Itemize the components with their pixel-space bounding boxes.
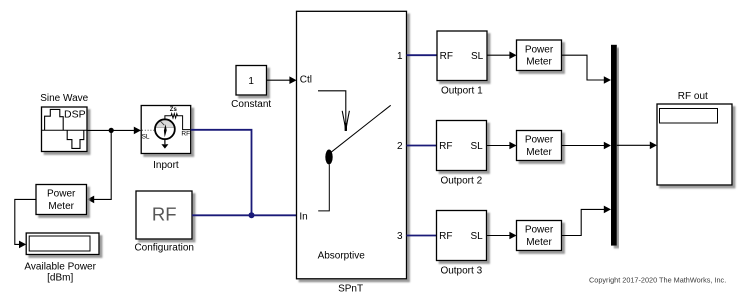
svg-text:1: 1 <box>248 76 254 87</box>
svg-text:Power: Power <box>525 135 554 146</box>
svg-text:Power: Power <box>47 189 76 200</box>
wire mux bar to RF out display <box>617 142 657 150</box>
svg-text:Zs: Zs <box>170 107 178 113</box>
svg-text:Absorptive: Absorptive <box>318 251 366 262</box>
svg-text:Sine Wave: Sine Wave <box>40 93 88 104</box>
block Power Meter 1 <box>517 40 562 71</box>
svg-text:RF out: RF out <box>678 91 708 102</box>
svg-text:Outport 3: Outport 3 <box>440 265 482 276</box>
svg-text:Outport 2: Outport 2 <box>440 175 482 186</box>
block SPnT switch body <box>297 11 407 294</box>
block display RF out <box>657 91 732 185</box>
wire Constant to SPnT Ctl <box>267 76 297 84</box>
svg-text:SL: SL <box>471 51 484 62</box>
SPnT control arrow <box>318 91 349 131</box>
svg-text:SL: SL <box>470 141 483 152</box>
svg-text:RF: RF <box>439 231 452 242</box>
blue wire SPnT port 1 to Outport 1 <box>407 54 438 56</box>
svg-text:SPnT: SPnT <box>338 283 363 294</box>
blue wire SPnT port 2 to Outport 2 <box>407 145 437 147</box>
svg-text:Outport 1: Outport 1 <box>441 86 483 97</box>
SPnT In wire elbow <box>318 165 329 211</box>
wire Outport 3 to Power Meter 3 <box>487 232 517 240</box>
svg-text:Meter: Meter <box>48 201 74 212</box>
block Sine Wave <box>40 93 88 152</box>
wire Outport 2 to Power Meter 2 <box>487 142 517 150</box>
svg-text:1: 1 <box>397 51 403 62</box>
svg-text:Ctl: Ctl <box>300 75 312 86</box>
wire junction to left Power Meter <box>87 130 111 203</box>
block Outport 1 <box>437 31 487 97</box>
wire Outport 1 to Power Meter 1 <box>487 51 517 59</box>
svg-text:Configuration: Configuration <box>134 242 193 253</box>
svg-text:Meter: Meter <box>526 237 552 248</box>
svg-text:Meter: Meter <box>526 147 552 158</box>
svg-text:3: 3 <box>397 231 403 242</box>
svg-text:Power: Power <box>525 44 554 55</box>
wire Sine Wave to Inport <box>87 127 141 135</box>
svg-text:In: In <box>299 212 307 223</box>
block Power Meter 2 <box>517 131 562 161</box>
wire Power Meter 1 to mux bar <box>562 55 612 84</box>
block Power Meter 3 <box>517 221 562 251</box>
junction node on blue wire <box>249 212 255 218</box>
svg-text:Meter: Meter <box>526 57 552 68</box>
svg-text:Constant: Constant <box>231 99 271 110</box>
blue wire Configuration to SPnT In <box>192 214 297 216</box>
block display Available Power [dBm] <box>24 233 99 283</box>
block Outport 2 <box>437 121 487 187</box>
SPnT throw line <box>331 105 391 152</box>
mux bar <box>611 45 617 246</box>
svg-text:2: 2 <box>397 141 403 152</box>
wire Power Meter 2 to mux bar <box>562 142 612 150</box>
blue wire SPnT port 3 to Outport 3 <box>407 235 437 237</box>
svg-text:SL: SL <box>470 231 483 242</box>
block Outport 3 <box>437 211 487 277</box>
svg-text:Copyright 2017-2020 The MathWo: Copyright 2017-2020 The MathWorks, Inc. <box>589 275 726 284</box>
wire Power Meter 3 to mux bar <box>562 206 612 236</box>
wire left Power Meter to Available Power display <box>15 199 36 248</box>
svg-text:RF: RF <box>152 204 177 225</box>
junction at Sine Wave output <box>109 128 114 133</box>
block Inport <box>141 106 191 172</box>
blue wire Inport RF output to node <box>191 130 252 216</box>
svg-text:Power: Power <box>525 225 554 236</box>
svg-text:RF: RF <box>181 131 190 138</box>
svg-text:RF: RF <box>440 51 453 62</box>
svg-text:Available Power: Available Power <box>24 261 96 272</box>
svg-text:SL: SL <box>142 133 150 140</box>
svg-text:DSP: DSP <box>64 109 86 121</box>
block Constant <box>231 66 271 110</box>
SPnT switch pole <box>325 150 332 165</box>
block Configuration <box>134 191 193 253</box>
svg-text:Inport: Inport <box>153 160 179 171</box>
svg-text:RF: RF <box>439 141 452 152</box>
block Power Meter (left) <box>36 185 87 215</box>
svg-text:[dBm]: [dBm] <box>47 272 73 283</box>
